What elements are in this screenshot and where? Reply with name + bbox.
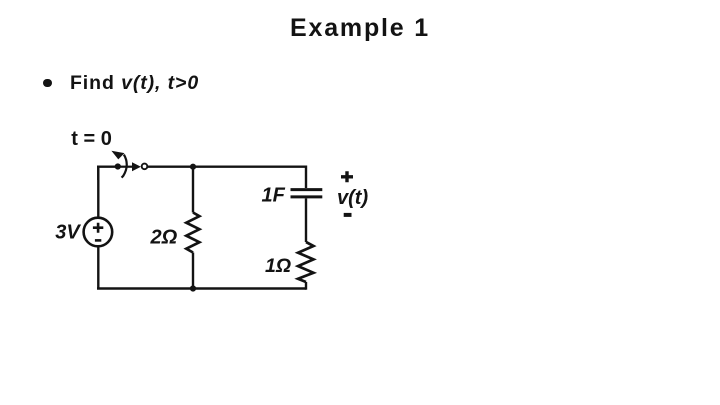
- voltage source minus sign: [95, 239, 101, 242]
- voltage source V1 circle: [84, 218, 113, 247]
- switch arc arrowhead: [111, 151, 124, 160]
- wire: middle branch top lead: [192, 167, 194, 213]
- wire: bottom from left corner to right corner: [97, 287, 306, 290]
- capacitor C1 bottom plate: [291, 195, 323, 198]
- switch arm arrow line: [120, 166, 133, 168]
- wire: middle branch bottom lead: [192, 253, 194, 289]
- wire: left vertical bottom (source to bottom corner): [97, 246, 99, 289]
- svg-text:1Ω: 1Ω: [265, 255, 291, 277]
- wire: top-left segment from corner to switch dot: [97, 167, 118, 180]
- resistor R2 1ohm zigzag: [298, 242, 314, 282]
- svg-text:3V: 3V: [55, 221, 81, 243]
- capacitor C1 top plate: [291, 188, 323, 191]
- wire: left vertical top (corner to source): [97, 167, 99, 218]
- switch arm arrowhead: [132, 162, 141, 171]
- wire: right branch top lead: [305, 166, 307, 189]
- label minus of v(t): [344, 213, 352, 217]
- svg-text:t = 0: t = 0: [71, 128, 112, 150]
- bullet text: Find v(t), t>0: [70, 72, 199, 95]
- switch open contact circle: [142, 164, 148, 170]
- bullet marker: [43, 79, 51, 87]
- svg-text:2Ω: 2Ω: [150, 227, 178, 249]
- resistor R1 2ohm zigzag: [186, 213, 199, 253]
- title: Example 1: [0, 14, 720, 43]
- switch motion arc: [122, 155, 127, 178]
- svg-text:v(t): v(t): [337, 187, 368, 209]
- svg-text:1F: 1F: [262, 185, 286, 207]
- wire: right branch bottom lead: [305, 282, 307, 290]
- node: bottom junction dot at middle branch: [190, 285, 196, 291]
- voltage source plus sign: [93, 223, 103, 233]
- switch fixed contact dot: [115, 163, 121, 169]
- node: top junction dot at middle branch: [190, 164, 196, 170]
- label plus of v(t): [341, 171, 353, 182]
- wire: top from switch to right corner: [148, 165, 306, 167]
- wire: right branch middle lead (cap to resistor): [305, 198, 307, 242]
